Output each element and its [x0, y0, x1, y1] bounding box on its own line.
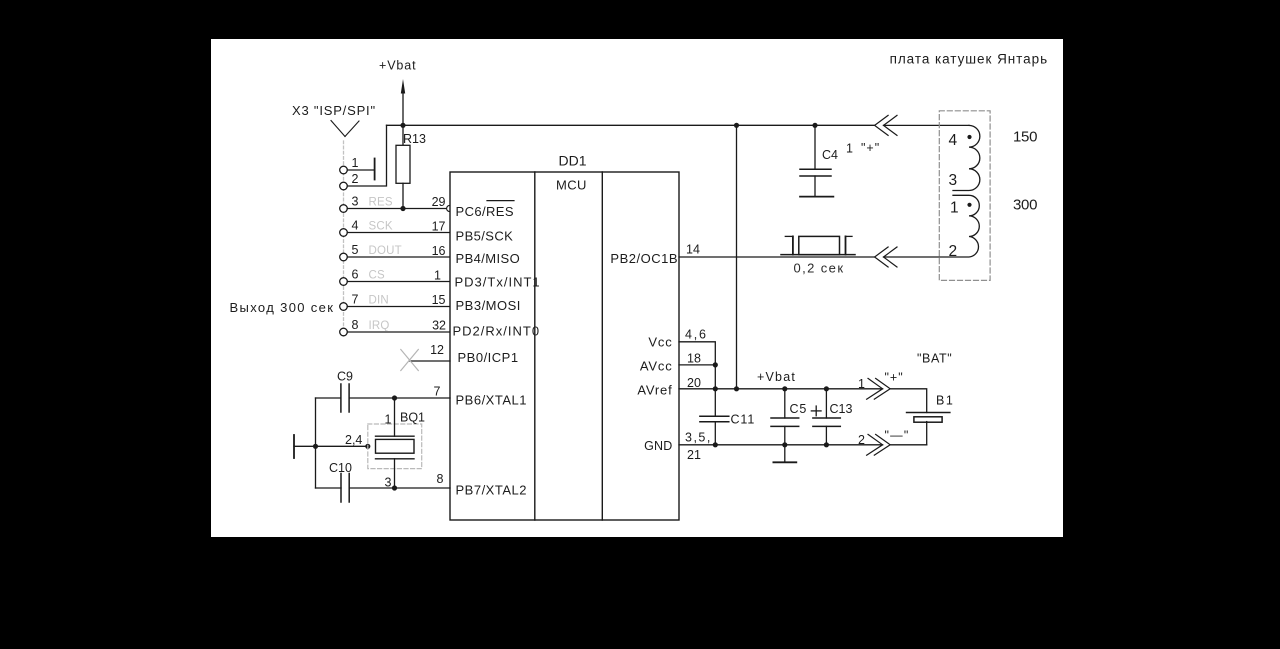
- connector chevron coil pin2: [875, 247, 897, 267]
- coil dashed box: [939, 111, 990, 281]
- svg-text:RES: RES: [369, 197, 393, 209]
- wire CS net: [347, 281, 450, 283]
- connector X3 bracket: [331, 121, 345, 137]
- wire +Vbat top rail: [387, 124, 875, 126]
- button 0,2 sec: [781, 254, 855, 256]
- svg-text:21: 21: [687, 448, 701, 462]
- svg-text:PB4/MISO: PB4/MISO: [456, 251, 521, 266]
- terminator bar case: [293, 435, 295, 458]
- MCU DD1 body: [450, 172, 679, 520]
- svg-text:8: 8: [352, 318, 359, 332]
- svg-text:15: 15: [432, 293, 446, 307]
- X3 pin 5: [340, 253, 348, 261]
- svg-text:17: 17: [432, 220, 446, 234]
- polarity dot pin1: [967, 203, 971, 207]
- connector chevron battery plus: [867, 378, 891, 399]
- svg-text:плата катушек Янтарь: плата катушек Янтарь: [890, 52, 1048, 67]
- no-connect X on PB0: [401, 350, 419, 371]
- wire IRQ net: [347, 331, 450, 333]
- X3 pin 7: [340, 303, 348, 311]
- wire Vcc: [679, 342, 715, 417]
- wire XTAL1 net: [316, 397, 341, 399]
- wire pin1 stub: [347, 169, 374, 171]
- svg-text:150: 150: [1013, 129, 1037, 146]
- svg-text:3,5,: 3,5,: [685, 431, 712, 445]
- svg-text:1: 1: [385, 413, 392, 427]
- svg-text:20: 20: [687, 376, 701, 390]
- svg-text:2,4: 2,4: [345, 433, 362, 447]
- svg-text:PB6/XTAL1: PB6/XTAL1: [456, 393, 527, 408]
- svg-text:1: 1: [858, 377, 865, 391]
- svg-text:29: 29: [432, 195, 446, 209]
- wire DIN net: [347, 306, 450, 308]
- X3 pin 6: [340, 278, 348, 286]
- crystal BQ1 case dashed: [368, 424, 422, 469]
- svg-text:2: 2: [858, 433, 865, 447]
- svg-text:PB7/XTAL2: PB7/XTAL2: [456, 483, 527, 498]
- ground symbol: [784, 445, 786, 462]
- svg-text:+Vbat: +Vbat: [757, 370, 796, 384]
- svg-text:AVcc: AVcc: [640, 359, 673, 374]
- svg-text:"BAT": "BAT": [917, 352, 952, 366]
- svg-text:1: 1: [352, 156, 359, 170]
- wire pin2 to +Vbat rail: [347, 125, 386, 186]
- capacitor C10: [340, 474, 342, 503]
- capacitor C5: [784, 389, 786, 418]
- svg-text:SCK: SCK: [369, 221, 393, 233]
- capacitor C9: [340, 384, 342, 412]
- wire left vertical gnd side: [315, 398, 317, 488]
- coil L1 winding upper: [953, 125, 980, 190]
- svg-text:12: 12: [430, 343, 444, 357]
- svg-text:B1: B1: [936, 394, 954, 408]
- svg-text:PC6/RES: PC6/RES: [456, 204, 514, 219]
- wire AVcc: [679, 364, 715, 366]
- svg-text:Vcc: Vcc: [648, 335, 672, 350]
- svg-text:4: 4: [949, 132, 958, 149]
- svg-text:C13: C13: [830, 402, 853, 416]
- svg-text:1: 1: [846, 142, 853, 156]
- wire vertical +Vbat rail: [736, 125, 738, 389]
- svg-text:5: 5: [352, 243, 359, 257]
- svg-text:X3 "ISP/SPI": X3 "ISP/SPI": [292, 103, 376, 118]
- svg-text:PD3/Tx/INT1: PD3/Tx/INT1: [455, 275, 541, 290]
- svg-text:14: 14: [686, 243, 700, 257]
- node junction vert rail: [734, 123, 739, 128]
- svg-text:+Vbat: +Vbat: [379, 58, 417, 72]
- svg-text:16: 16: [432, 244, 446, 258]
- capacitor C11: [700, 415, 729, 417]
- svg-text:1: 1: [434, 269, 441, 283]
- svg-text:PB0/ICP1: PB0/ICP1: [458, 350, 519, 365]
- terminator bar pin1: [374, 159, 376, 180]
- svg-text:2: 2: [352, 172, 359, 186]
- connector X3 dashed body line: [343, 141, 345, 337]
- overline RES of PC6: [487, 200, 514, 202]
- svg-text:0,2 сек: 0,2 сек: [794, 261, 845, 276]
- battery B1: [907, 412, 950, 414]
- svg-text:AVref: AVref: [637, 383, 672, 398]
- schematic sheet: [211, 39, 1063, 537]
- svg-text:DD1: DD1: [559, 153, 587, 169]
- capacitor C13: [825, 389, 827, 418]
- svg-text:DIN: DIN: [369, 295, 389, 307]
- crystal BQ1: [376, 435, 415, 437]
- node junction XTAL2: [392, 485, 397, 490]
- node junction R13 bottom: [400, 206, 405, 211]
- svg-text:R13: R13: [403, 132, 426, 146]
- capacitor C4: [814, 125, 816, 169]
- svg-text:4,6: 4,6: [685, 328, 708, 342]
- pin circle PC6: [447, 205, 453, 211]
- svg-text:7: 7: [352, 293, 359, 307]
- svg-text:BQ1: BQ1: [400, 411, 425, 425]
- wire to battery minus: [890, 444, 927, 446]
- svg-text:C10: C10: [329, 461, 352, 475]
- wire crystal to XTAL2: [394, 459, 396, 488]
- svg-text:6: 6: [352, 268, 359, 282]
- svg-text:2: 2: [949, 243, 958, 260]
- wire GND net: [679, 444, 883, 446]
- svg-text:7: 7: [434, 385, 441, 399]
- polarity dot pin4: [967, 135, 971, 139]
- ground bar C4: [800, 196, 833, 198]
- svg-text:300: 300: [1013, 197, 1037, 214]
- wire RES net pin3 to PC6: [347, 208, 446, 210]
- X3 pin 2: [340, 182, 348, 190]
- connector chevron coil pin4: [875, 115, 897, 135]
- svg-text:32: 32: [432, 318, 446, 332]
- svg-text:Выход 300 сек: Выход 300 сек: [230, 300, 335, 315]
- node junction case wire: [313, 444, 318, 449]
- svg-text:C9: C9: [337, 370, 353, 384]
- X3 pin 4: [340, 229, 348, 237]
- resistor R13: [402, 125, 404, 145]
- svg-text:DOUT: DOUT: [369, 245, 402, 257]
- svg-text:PD2/Rx/INT0: PD2/Rx/INT0: [453, 324, 541, 339]
- coil L1 winding lower: [884, 195, 980, 257]
- wire to coil pin4: [884, 124, 970, 126]
- svg-text:3: 3: [949, 172, 958, 189]
- wire DOUT net: [347, 256, 450, 258]
- svg-text:"+": "+": [861, 141, 880, 155]
- node junction XTAL1: [392, 395, 397, 400]
- wire to battery plus: [890, 389, 927, 413]
- svg-text:3: 3: [385, 476, 392, 490]
- svg-text:C11: C11: [731, 413, 756, 427]
- svg-text:PB3/MOSI: PB3/MOSI: [456, 298, 521, 313]
- X3 pin 3: [340, 205, 348, 213]
- svg-text:CS: CS: [369, 270, 386, 282]
- svg-text:C5: C5: [790, 402, 808, 416]
- svg-text:IRQ: IRQ: [369, 320, 390, 332]
- svg-text:3: 3: [352, 195, 359, 209]
- svg-text:PB5/SCK: PB5/SCK: [456, 229, 514, 244]
- svg-text:PB2/OC1B: PB2/OC1B: [610, 251, 678, 266]
- connector chevron battery minus: [867, 434, 891, 455]
- wire PB2/OC1B net: [679, 256, 875, 258]
- svg-text:8: 8: [437, 472, 444, 486]
- svg-text:MCU: MCU: [556, 178, 587, 193]
- svg-text:"+": "+": [885, 371, 904, 385]
- wire XTAL1 to crystal: [394, 398, 396, 436]
- svg-text:4: 4: [352, 219, 359, 233]
- X3 pin 8: [340, 328, 348, 336]
- wire SCK net: [347, 232, 450, 234]
- node junction R13 top: [400, 123, 405, 128]
- X3 pin 1: [340, 166, 348, 174]
- wire case 2,4: [294, 445, 368, 447]
- polarity plus C13: [811, 405, 822, 416]
- power flag +Vbat (left): [402, 90, 404, 125]
- svg-text:18: 18: [687, 352, 701, 366]
- wire PB0 stub: [410, 360, 451, 362]
- wire XTAL2 net: [316, 487, 342, 489]
- svg-text:1: 1: [950, 200, 959, 217]
- svg-text:GND: GND: [644, 439, 672, 453]
- svg-text:"—": "—": [885, 429, 910, 443]
- svg-text:C4: C4: [822, 148, 838, 162]
- wire AVref / +Vbat rail: [679, 388, 883, 390]
- node junction C4: [812, 123, 817, 128]
